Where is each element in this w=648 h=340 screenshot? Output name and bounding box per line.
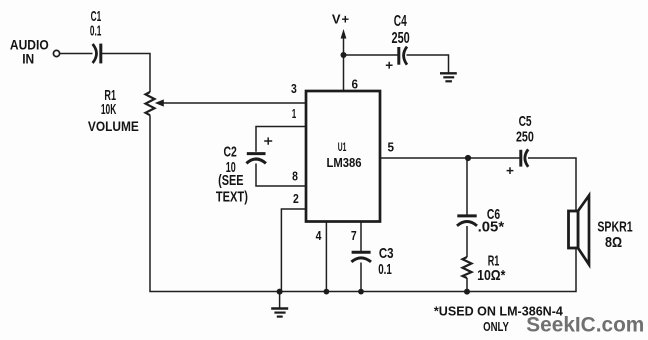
svg-text:ONLY: ONLY [483, 319, 509, 334]
svg-text:LM386: LM386 [326, 155, 361, 170]
svg-text:7: 7 [351, 228, 357, 243]
svg-text:2: 2 [293, 191, 299, 206]
svg-text:0.1: 0.1 [378, 261, 392, 278]
svg-text:IN: IN [22, 51, 34, 66]
svg-text:4: 4 [316, 228, 322, 243]
svg-text:U1: U1 [338, 140, 347, 154]
svg-text:VOLUME: VOLUME [88, 119, 139, 134]
svg-text:250: 250 [516, 129, 534, 146]
svg-text:5: 5 [388, 140, 395, 155]
svg-text:10K: 10K [101, 101, 116, 118]
svg-text:C2: C2 [224, 144, 237, 161]
svg-text:.05*: .05* [478, 219, 505, 236]
svg-text:8: 8 [292, 168, 298, 183]
svg-text:6: 6 [351, 76, 358, 91]
svg-text:C5: C5 [519, 113, 532, 130]
svg-text:SeekIC.com: SeekIC.com [526, 314, 644, 337]
svg-text:10Ω*: 10Ω* [477, 267, 505, 284]
svg-text:V+: V+ [332, 12, 350, 27]
svg-text:(SEE: (SEE [218, 172, 243, 189]
svg-text:TEXT): TEXT) [216, 189, 248, 206]
svg-text:8Ω: 8Ω [605, 234, 622, 251]
svg-text:C4: C4 [394, 13, 407, 30]
svg-text:250: 250 [392, 30, 410, 47]
svg-text:0.1: 0.1 [90, 23, 102, 40]
svg-text:C3: C3 [379, 245, 394, 262]
svg-text:3: 3 [291, 81, 297, 96]
svg-text:AUDIO: AUDIO [10, 37, 49, 53]
svg-text:1: 1 [292, 106, 297, 121]
